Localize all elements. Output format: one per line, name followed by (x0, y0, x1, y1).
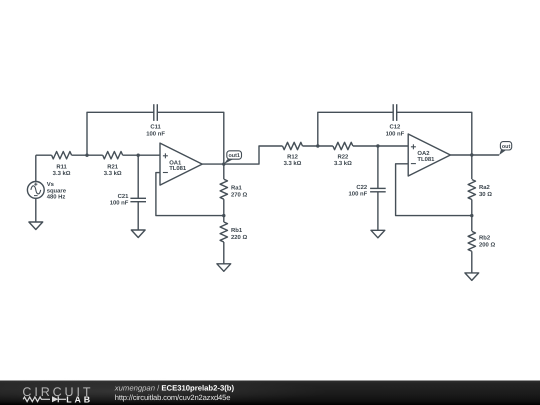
svg-text:100 nF: 100 nF (386, 130, 405, 137)
svg-text:square: square (47, 189, 67, 195)
svg-text:R11: R11 (56, 164, 67, 171)
svg-text:3.3 kΩ: 3.3 kΩ (334, 160, 352, 167)
svg-text:Ra1: Ra1 (231, 185, 243, 192)
svg-text:200 Ω: 200 Ω (479, 242, 495, 249)
svg-text:3.3 kΩ: 3.3 kΩ (53, 170, 71, 177)
svg-text:OA2: OA2 (417, 150, 430, 157)
svg-text:Ra2: Ra2 (479, 184, 491, 191)
svg-text:3.3 kΩ: 3.3 kΩ (284, 160, 302, 167)
svg-text:C12: C12 (389, 124, 401, 131)
svg-text:TL081: TL081 (169, 165, 187, 172)
svg-text:xumengpan / ECE310prelab2-3(b): xumengpan / ECE310prelab2-3(b) (114, 383, 235, 392)
svg-text:C11: C11 (150, 124, 161, 131)
svg-text:C21: C21 (118, 193, 130, 200)
svg-text:out: out (502, 144, 511, 150)
svg-text:Vs: Vs (47, 181, 55, 188)
svg-text:100 nF: 100 nF (146, 130, 165, 137)
svg-text:100 nF: 100 nF (110, 200, 129, 207)
svg-text:220 Ω: 220 Ω (231, 234, 247, 241)
svg-text:30 Ω: 30 Ω (479, 191, 492, 198)
svg-text:R22: R22 (337, 154, 349, 161)
svg-text:270 Ω: 270 Ω (231, 192, 247, 199)
svg-text:Rb1: Rb1 (231, 227, 243, 234)
svg-text:3.3 kΩ: 3.3 kΩ (104, 170, 122, 177)
svg-text:http://circuitlab.com/cuv2n2az: http://circuitlab.com/cuv2n2azxd45e (115, 393, 230, 402)
svg-text:480 Hz: 480 Hz (47, 194, 66, 201)
svg-text:C22: C22 (356, 184, 368, 191)
svg-text:100 nF: 100 nF (349, 190, 368, 197)
svg-text:R21: R21 (107, 164, 119, 171)
svg-text:R12: R12 (287, 154, 299, 161)
svg-text:TL081: TL081 (417, 156, 435, 163)
svg-text:out1: out1 (229, 153, 240, 159)
svg-text:LAB: LAB (66, 394, 93, 404)
svg-text:Rb2: Rb2 (479, 235, 491, 242)
